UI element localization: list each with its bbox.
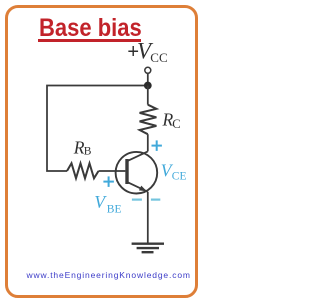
svg-text:BE: BE	[107, 204, 122, 216]
svg-text:C: C	[172, 117, 180, 131]
svg-text:V: V	[94, 192, 107, 212]
svg-text:CE: CE	[172, 170, 187, 182]
svg-text:B: B	[84, 146, 92, 158]
svg-text:CC: CC	[150, 50, 167, 65]
